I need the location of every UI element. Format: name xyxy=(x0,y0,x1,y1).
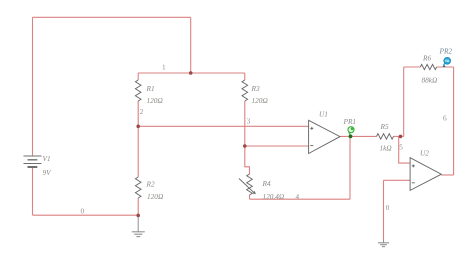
junction node 3 xyxy=(243,144,247,148)
wire R2 bottom to ground net xyxy=(137,198,139,216)
junction node 5 xyxy=(399,135,403,139)
junction node 2 xyxy=(136,125,140,129)
ground at U2 minus xyxy=(378,240,389,247)
wire node 2 to R2 top xyxy=(137,126,139,177)
wire top from battery to node1 drop xyxy=(33,16,191,18)
svg-text:U1: U1 xyxy=(319,110,328,119)
resistor R2 xyxy=(135,177,141,198)
wire node 5 up to R6 xyxy=(403,67,405,136)
resistor R5 xyxy=(377,134,394,139)
svg-text:1kΩ: 1kΩ xyxy=(380,144,393,153)
svg-text:120.4Ω: 120.4Ω xyxy=(263,192,285,201)
wire node 5 down to U2 plus input xyxy=(399,136,410,163)
resistor R1 xyxy=(135,80,141,101)
svg-text:PR1: PR1 xyxy=(343,117,357,126)
wire U2 minus input xyxy=(384,179,411,181)
svg-text:120Ω: 120Ω xyxy=(147,96,164,105)
wire R1 top lead xyxy=(137,73,139,80)
svg-text:R2: R2 xyxy=(146,180,155,189)
svg-text:U2: U2 xyxy=(420,149,429,158)
wire bottom net 0 xyxy=(33,214,139,216)
wire node 2 to U1 plus input xyxy=(138,125,308,127)
svg-text:3: 3 xyxy=(247,118,251,126)
probe PR2 xyxy=(443,57,451,67)
svg-text:R6: R6 xyxy=(422,54,431,63)
wire U1 minus input xyxy=(245,145,309,147)
wire left vertical battery bottom xyxy=(32,167,34,215)
svg-text:R5: R5 xyxy=(380,122,389,131)
wire R3 top lead xyxy=(244,73,246,80)
op-amp U2 xyxy=(410,158,441,191)
wire net 6 right vertical xyxy=(453,67,455,175)
wire left vertical battery top xyxy=(32,17,34,156)
junction node 1 xyxy=(189,71,193,75)
svg-text:0: 0 xyxy=(81,208,85,216)
resistor R6 xyxy=(420,64,436,69)
svg-text:PR2: PR2 xyxy=(439,47,453,56)
svg-text:VA: VA xyxy=(445,59,450,63)
svg-text:4: 4 xyxy=(296,193,300,201)
wire node 1 horizontal xyxy=(138,72,245,74)
wire R3 bottom net 3 vertical xyxy=(244,101,246,146)
battery V1 xyxy=(24,156,42,167)
svg-text:R3: R3 xyxy=(251,84,260,93)
svg-text:120Ω: 120Ω xyxy=(252,96,269,105)
svg-text:R4: R4 xyxy=(262,179,271,188)
svg-text:1: 1 xyxy=(162,63,166,71)
resistor R3 xyxy=(242,80,248,101)
wire R6 left lead xyxy=(404,66,421,68)
wire R6 right lead xyxy=(437,66,454,68)
wire U2 output xyxy=(441,174,453,176)
wire U2 minus to ground xyxy=(383,180,385,239)
wire net 4 vertical up to U1 output xyxy=(349,136,351,199)
junction ground net 0 xyxy=(136,214,140,218)
op-amp U1 xyxy=(309,120,340,153)
ground at R2 bottom xyxy=(132,217,145,237)
svg-text:V1: V1 xyxy=(43,154,51,163)
probe PR1 xyxy=(348,127,354,139)
wire R4 bottom lead xyxy=(249,195,251,199)
wire R5 right lead to node 5 xyxy=(394,135,404,137)
wire U1 output to R5 xyxy=(340,135,377,137)
svg-text:6: 6 xyxy=(443,115,447,123)
arrow of R4 xyxy=(239,179,254,193)
svg-text:R1: R1 xyxy=(146,84,155,93)
wire net 4 bottom horizontal xyxy=(250,198,351,200)
resistor R4 variable xyxy=(247,174,253,195)
wire node3 to R4 jog xyxy=(245,146,250,174)
wire vertical drop to node 1 xyxy=(190,17,192,73)
wire R1 bottom to node 2 xyxy=(137,101,139,126)
svg-text:2: 2 xyxy=(140,108,144,116)
svg-text:88kΩ: 88kΩ xyxy=(422,76,439,85)
svg-text:5: 5 xyxy=(399,143,403,151)
svg-text:120Ω: 120Ω xyxy=(147,192,164,201)
svg-text:0: 0 xyxy=(386,204,390,212)
